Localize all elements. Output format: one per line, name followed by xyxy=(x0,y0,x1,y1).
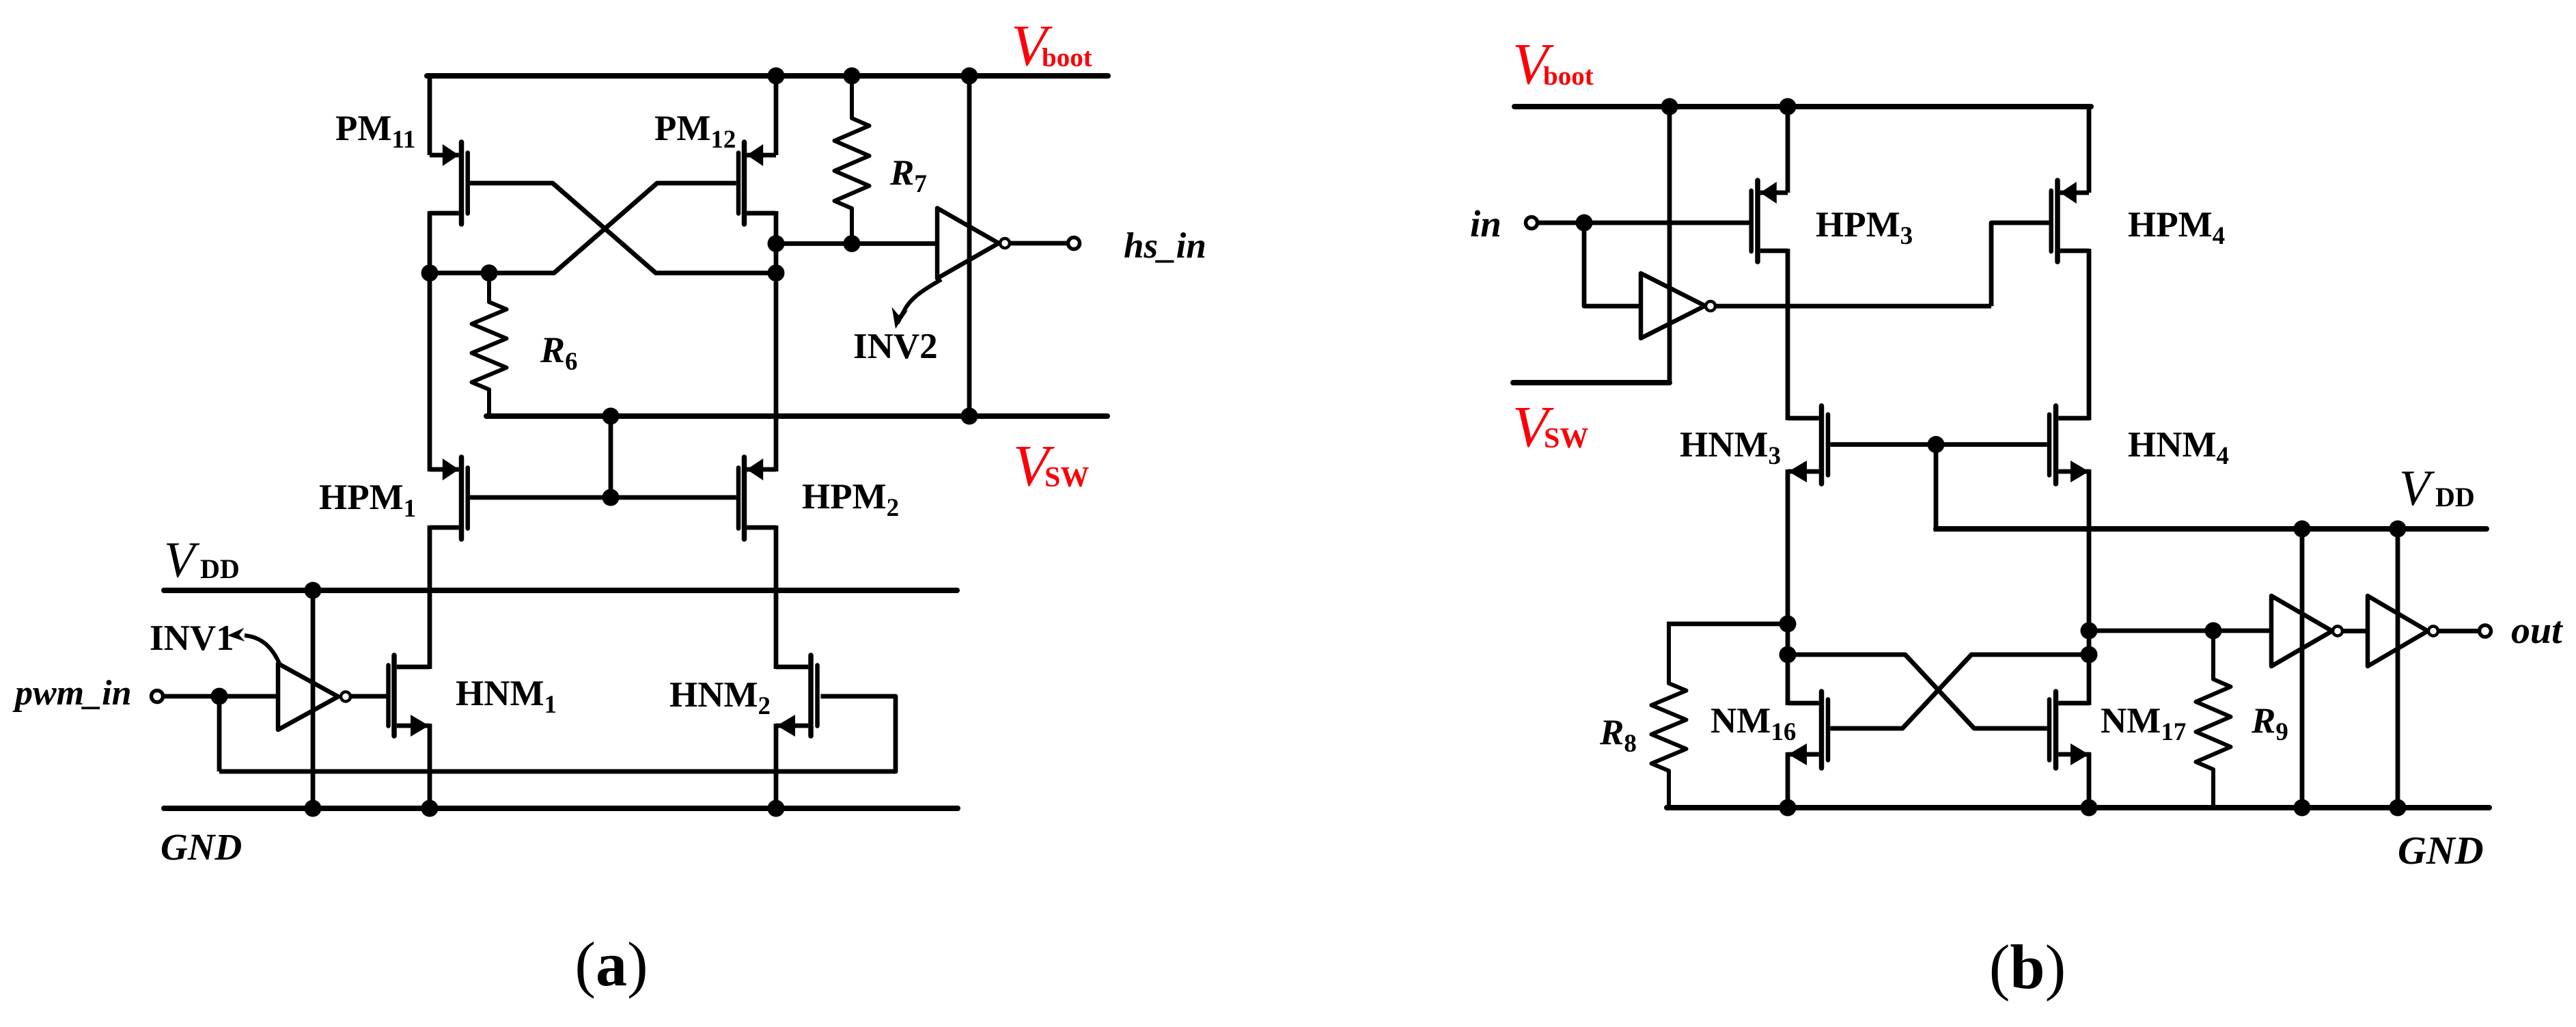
svg-text:pwm_in: pwm_in xyxy=(12,674,132,713)
svg-text:HNM4: HNM4 xyxy=(2128,425,2229,470)
svg-text:GND: GND xyxy=(161,826,242,868)
wire pwm_in to INV1 input xyxy=(163,694,276,699)
svg-text:SW: SW xyxy=(1544,423,1588,454)
wire inverter1 supply (V_DD to GND) xyxy=(2300,529,2305,810)
wire HPM4 drain to HNM4 drain xyxy=(2087,249,2092,420)
svg-text:V: V xyxy=(164,532,200,588)
transistor HNM1 xyxy=(391,655,397,736)
wire NM16 source to GND xyxy=(1786,752,1790,810)
junction dot in node xyxy=(1576,215,1593,232)
wire V_boot to HPM3 source xyxy=(1786,104,1790,193)
junction dot HNM3 source / R8 xyxy=(1779,616,1797,633)
net V_DD rail (panel a) xyxy=(164,588,957,593)
node in terminal xyxy=(1526,217,1538,229)
svg-text:HPM1: HPM1 xyxy=(319,478,416,523)
wire PM12 drain to HPM2 source (crosses V_SW) xyxy=(774,211,779,471)
wire PM11 gate to PM12 drain (cross-couple) xyxy=(470,183,776,273)
inverter output buffer 1 xyxy=(2271,596,2332,666)
wire HNM3 gate to HNM4 gate xyxy=(1830,442,2047,447)
wire inverter2 supply (V_DD to GND) xyxy=(2396,529,2400,810)
svg-text:DD: DD xyxy=(200,553,240,584)
wire V_boot to PM12 source xyxy=(774,74,779,155)
junction dot HNM2 source at GND xyxy=(768,800,785,817)
inverter INV1 xyxy=(278,663,338,730)
junction dot cross-couple right xyxy=(2081,646,2098,663)
wire HPM3 drain to HNM3 drain xyxy=(1786,249,1790,420)
svg-text:hs_in: hs_in xyxy=(1124,226,1206,266)
svg-text:DD: DD xyxy=(2435,482,2475,512)
net V_boot rail (panel a) xyxy=(427,73,1108,79)
net V_SW rail (panel a) xyxy=(486,413,1107,419)
junction dot pwm_in node xyxy=(211,688,228,705)
junction dot gate line to V_DD xyxy=(1928,436,1945,453)
node hs_in terminal xyxy=(1068,238,1080,249)
wire pwm_in node to feedback line xyxy=(217,696,222,771)
junction dot V_SW / gate stub xyxy=(603,408,620,425)
svg-text:HNM2: HNM2 xyxy=(669,675,771,720)
svg-text:INV2: INV2 xyxy=(853,327,938,366)
inverter INVb (level-shift input) xyxy=(1641,273,1705,338)
svg-text:V: V xyxy=(2399,461,2435,517)
wire PM12 gate to PM11 drain node (cross-couple) xyxy=(430,183,736,273)
junction dot INV1 supply at GND xyxy=(305,800,322,817)
junction dot node A (PM11 drain) xyxy=(421,264,439,282)
ground GND rail (panel a) xyxy=(164,806,958,811)
wire output node to inverter chain xyxy=(2089,629,2271,633)
svg-text:out: out xyxy=(2511,610,2563,652)
wire HNM4 source to NM17 drain (crosses V_DD) xyxy=(2087,469,2092,705)
node out terminal xyxy=(2480,625,2491,637)
wire HPM2 drain to HNM2 drain (crosses V_DD) xyxy=(774,525,779,669)
wire in to HPM3 gate xyxy=(1537,221,1749,225)
net V_SW stub (panel b) xyxy=(1513,380,1670,385)
inverter output buffer 2 xyxy=(2368,596,2428,666)
node pwm_in terminal xyxy=(152,691,163,702)
junction dot inv1 supply at V_DD xyxy=(2294,521,2311,538)
wire HPM1 drain to HNM1 drain (crosses V_DD) xyxy=(428,525,432,669)
transistor NM16 xyxy=(1819,691,1825,768)
svg-text:HPM4: HPM4 xyxy=(2128,205,2225,250)
svg-text:(a): (a) xyxy=(574,929,648,999)
junction dot inv1 supply at GND xyxy=(2294,799,2311,817)
wire cross-couple NM17 drain to NM16 gate xyxy=(1830,655,2089,728)
transistor HNM2 xyxy=(808,655,814,736)
junction dot HNM4 source / output node xyxy=(2081,622,2098,640)
wire INVb supply (V_boot to V_SW) xyxy=(1667,104,1672,383)
junction dot NM16 source at GND xyxy=(1779,799,1797,817)
transistor PM12 xyxy=(742,142,747,224)
junction dot inv2 supply at GND xyxy=(2390,799,2407,817)
transistor HNM3 xyxy=(1819,406,1825,484)
wire INV1 supply (V_DD to GND) xyxy=(311,590,316,808)
inverter INV2 xyxy=(937,208,999,279)
transistor PM11 xyxy=(459,142,465,224)
wire gate line to V_DD rail xyxy=(1934,445,1939,532)
transistor NM17 xyxy=(2053,691,2059,768)
transistor HPM3 xyxy=(1755,180,1760,262)
svg-text:INV1: INV1 xyxy=(150,618,234,658)
wire PM11 drain to node A / HPM1 source xyxy=(428,211,432,471)
junction dot inv2 supply at V_DD xyxy=(2390,521,2407,538)
junction dot cross-couple left xyxy=(1779,646,1797,663)
resistor R7 xyxy=(835,76,870,244)
wire V_SW to HPM gate line xyxy=(609,416,613,497)
ground GND rail (panel b) xyxy=(1667,805,2489,810)
wire HNM2 source to GND xyxy=(774,724,779,810)
net V_boot rail (panel b) xyxy=(1514,104,2091,109)
junction dots on V_boot rail (panel a) xyxy=(768,68,785,85)
svg-text:HNM1: HNM1 xyxy=(456,674,557,719)
wire cross-couple NM16 drain to NM17 gate xyxy=(1788,655,2047,728)
wire in node to INVb input xyxy=(1584,223,1641,306)
wire HPM1 gate to HPM2 gate xyxy=(470,495,736,500)
junction dot INVb supply at V_boot xyxy=(1661,98,1678,115)
junction dot NM17 source at GND xyxy=(2081,799,2098,817)
wire R8 top connection xyxy=(1667,622,1788,627)
svg-text:HNM3: HNM3 xyxy=(1680,425,1781,470)
junction dot PM12 drain / cross-couple xyxy=(768,264,785,282)
wire PM12 drain to INV2 input xyxy=(776,241,937,246)
wire INVb output to HPM4 gate xyxy=(1991,223,2049,306)
svg-text:SW: SW xyxy=(1044,462,1089,493)
svg-text:HPM3: HPM3 xyxy=(1816,205,1913,250)
junction dot R9 top xyxy=(2205,622,2222,640)
svg-text:(b): (b) xyxy=(1989,932,2066,1002)
resistor R6 xyxy=(472,273,507,417)
junction dot HPM3 source at V_boot xyxy=(1779,98,1797,115)
transistor HPM2 xyxy=(742,457,747,539)
wire V_boot corner to HPM4 source xyxy=(2087,104,2092,193)
wire V_boot to PM11 source xyxy=(428,74,432,155)
junction dot INV2 supply at V_SW xyxy=(961,408,978,425)
wire HNM3 source to NM16 drain xyxy=(1786,469,1790,705)
transistor HPM1 xyxy=(459,457,465,539)
net V_DD rail (panel b) xyxy=(1936,526,2487,532)
wire INV2 supply (V_boot to V_SW) xyxy=(967,74,972,418)
wire feedback pwm to HNM2 gate xyxy=(219,696,896,771)
wire HNM1 source to GND xyxy=(428,724,432,810)
label INV2 with pointer arrow xyxy=(898,279,941,323)
svg-text:boot: boot xyxy=(1543,61,1594,91)
svg-text:boot: boot xyxy=(1042,43,1092,72)
transistor HPM4 xyxy=(2055,180,2060,262)
junction dot INV1 supply at V_DD xyxy=(305,582,322,599)
wire NM17 source to GND xyxy=(2087,752,2092,810)
junction dot HNM1 source at GND xyxy=(421,800,439,817)
svg-text:HPM2: HPM2 xyxy=(802,477,899,522)
transistor HNM4 xyxy=(2053,406,2059,484)
resistor R9 xyxy=(2196,631,2231,810)
resistor R8 xyxy=(1652,624,1687,810)
svg-text:GND: GND xyxy=(2398,828,2484,873)
junction dot INV2 input / R7 xyxy=(768,235,785,252)
svg-text:in: in xyxy=(1470,203,1501,245)
